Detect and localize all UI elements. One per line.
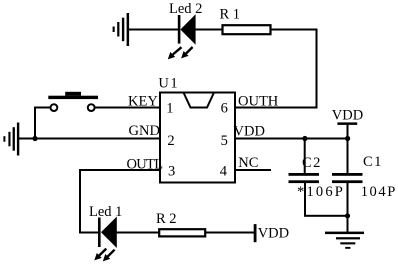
wire C2 bottom: [304, 183, 348, 217]
pin 1 number: [166, 101, 173, 117]
label C2: [302, 155, 322, 171]
LED Led1: [94, 217, 117, 262]
label C1: [363, 154, 383, 170]
pin name NC: [238, 155, 258, 171]
svg-text:C1: C1: [363, 154, 383, 170]
label VDD (top right): [332, 108, 363, 124]
svg-text:GND: GND: [129, 123, 160, 139]
label VDD (bottom): [258, 226, 289, 242]
resistor R1: [223, 25, 271, 34]
svg-text:U1: U1: [158, 76, 179, 92]
value 104P: [361, 184, 397, 200]
junction C1-C2 bottom: [345, 213, 350, 218]
svg-text:2: 2: [167, 133, 174, 149]
svg-text:104P: 104P: [361, 184, 397, 200]
svg-text:5: 5: [221, 133, 228, 149]
label R2: [156, 211, 177, 227]
pin name OUTH: [238, 94, 279, 110]
wire C1 bottom: [347, 183, 349, 233]
svg-text:VDD: VDD: [258, 226, 289, 242]
wire OUTL pin: [79, 169, 160, 234]
svg-text:R 1: R 1: [220, 7, 241, 23]
svg-text:R 2: R 2: [156, 211, 177, 227]
pin name OUTL: [127, 156, 163, 172]
capacitor C1: [332, 173, 363, 183]
wire OUTL to Led1: [81, 232, 99, 234]
wire button to GND net: [34, 107, 51, 140]
pushbutton switch S1: [48, 92, 98, 111]
svg-text:VDD: VDD: [234, 124, 265, 140]
svg-text:4: 4: [220, 164, 228, 180]
wire C2 top: [304, 139, 306, 174]
label U1: [158, 76, 179, 92]
pin 4 number: [220, 164, 228, 180]
junction VDD-rail: [345, 136, 350, 141]
wire Led1 to R2: [117, 232, 160, 234]
svg-text:6: 6: [221, 101, 228, 117]
pin 3 number: [168, 164, 175, 180]
svg-text:Led 2: Led 2: [169, 1, 202, 17]
wire KEY pin: [95, 107, 161, 109]
power VDD (bottom): [254, 224, 257, 242]
junction button-GND: [32, 136, 37, 141]
capacitor C2: [289, 173, 320, 183]
svg-text:3: 3: [168, 164, 175, 180]
svg-text:1: 1: [166, 101, 173, 117]
wire OUTH pin: [235, 107, 318, 109]
label R1: [220, 7, 241, 23]
LED Led2: [168, 14, 196, 59]
ground (top left, rotated): [113, 13, 130, 46]
svg-text:NC: NC: [238, 155, 258, 171]
label Led1: [89, 204, 122, 220]
IC U1: [160, 93, 235, 183]
svg-text:VDD: VDD: [332, 108, 363, 124]
pin 5 number: [221, 133, 228, 149]
svg-text:C2: C2: [302, 155, 322, 171]
junction C2-rail: [302, 136, 307, 141]
pin 2 number: [167, 133, 174, 149]
wire GND pin: [19, 138, 160, 140]
wire ground to Led2: [129, 29, 179, 31]
pin name VDD: [234, 124, 265, 140]
label Led2: [169, 1, 202, 17]
svg-text:Led 1: Led 1: [89, 204, 122, 220]
wire R1 to OUTH: [271, 29, 318, 109]
ground (left middle, rotated): [3, 123, 19, 156]
wire Led2 to R1: [196, 29, 223, 31]
wire R2 to VDD: [206, 232, 255, 234]
value *106P: [297, 184, 345, 200]
power VDD (top right): [337, 122, 357, 139]
wire VDD pin rail: [235, 138, 349, 140]
pin 6 number: [221, 101, 228, 117]
resistor R2: [159, 229, 205, 236]
wire NC pin: [235, 169, 271, 171]
wire C1 top: [347, 139, 349, 174]
ground (bottom right): [325, 232, 364, 249]
pin name GND: [129, 123, 160, 139]
pin name KEY: [128, 94, 158, 110]
